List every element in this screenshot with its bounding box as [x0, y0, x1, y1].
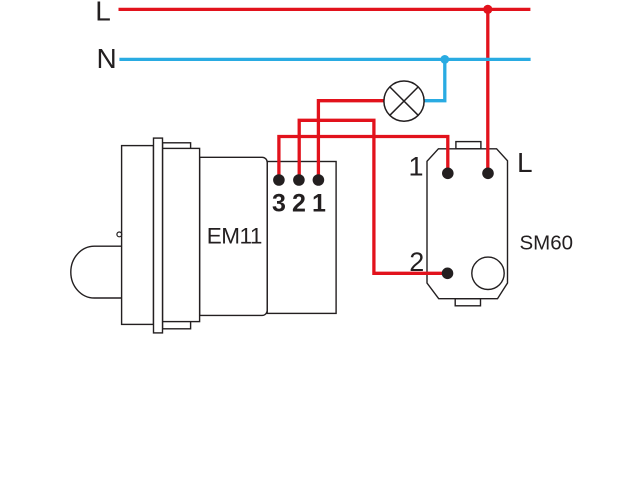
- svg-text:EM11: EM11: [207, 224, 262, 249]
- wire red EM11 terminal 2 to SM60 terminal 2: [299, 120, 447, 273]
- wire N line (blue): [119, 58, 530, 61]
- sensor EM11 dome lens: [71, 246, 122, 298]
- switch SM60 bottom tab: [455, 299, 480, 306]
- EM11 mounting strip flange: [154, 138, 163, 333]
- svg-text:N: N: [97, 43, 117, 74]
- EM11 small screw detail: [117, 232, 122, 237]
- EM11 terminal dot 3: [273, 174, 285, 186]
- EM11 head cover rectangle: [122, 146, 154, 325]
- SM60 button circle: [472, 257, 504, 289]
- junction dot on N line: [440, 55, 449, 64]
- wire L line (red): [119, 8, 531, 11]
- svg-text:L: L: [95, 0, 111, 27]
- svg-text:1: 1: [408, 152, 423, 182]
- SM60 terminal dot L: [482, 168, 494, 180]
- switch SM60 octagon body: [427, 149, 508, 299]
- wire red lamp to EM11 terminal 1: [318, 101, 390, 180]
- wire blue from N to lamp: [420, 59, 445, 100]
- SM60 terminal dot 2: [442, 268, 454, 280]
- EM11 main cylinder body: [200, 157, 268, 315]
- lamp symbol: [384, 81, 424, 121]
- wire red feed from L to SM60 terminal L: [486, 9, 489, 173]
- svg-text:L: L: [517, 147, 533, 178]
- svg-text:2: 2: [292, 189, 306, 217]
- switch SM60 top tab: [456, 142, 481, 149]
- svg-text:SM60: SM60: [520, 232, 574, 255]
- svg-text:3: 3: [272, 189, 286, 217]
- EM11 terminal block body: [267, 162, 336, 314]
- SM60 terminal dot 1: [442, 168, 454, 180]
- EM11 mid body section: [163, 148, 200, 321]
- EM11 terminal dot 1: [313, 174, 325, 186]
- EM11 rear flange plate: [163, 143, 191, 329]
- svg-text:2: 2: [409, 247, 424, 277]
- svg-text:1: 1: [312, 189, 326, 217]
- EM11 terminal dot 2: [293, 174, 305, 186]
- junction dot on L line: [483, 5, 492, 14]
- wire red EM11 terminal 3 to SM60 terminal 1: [279, 137, 448, 181]
